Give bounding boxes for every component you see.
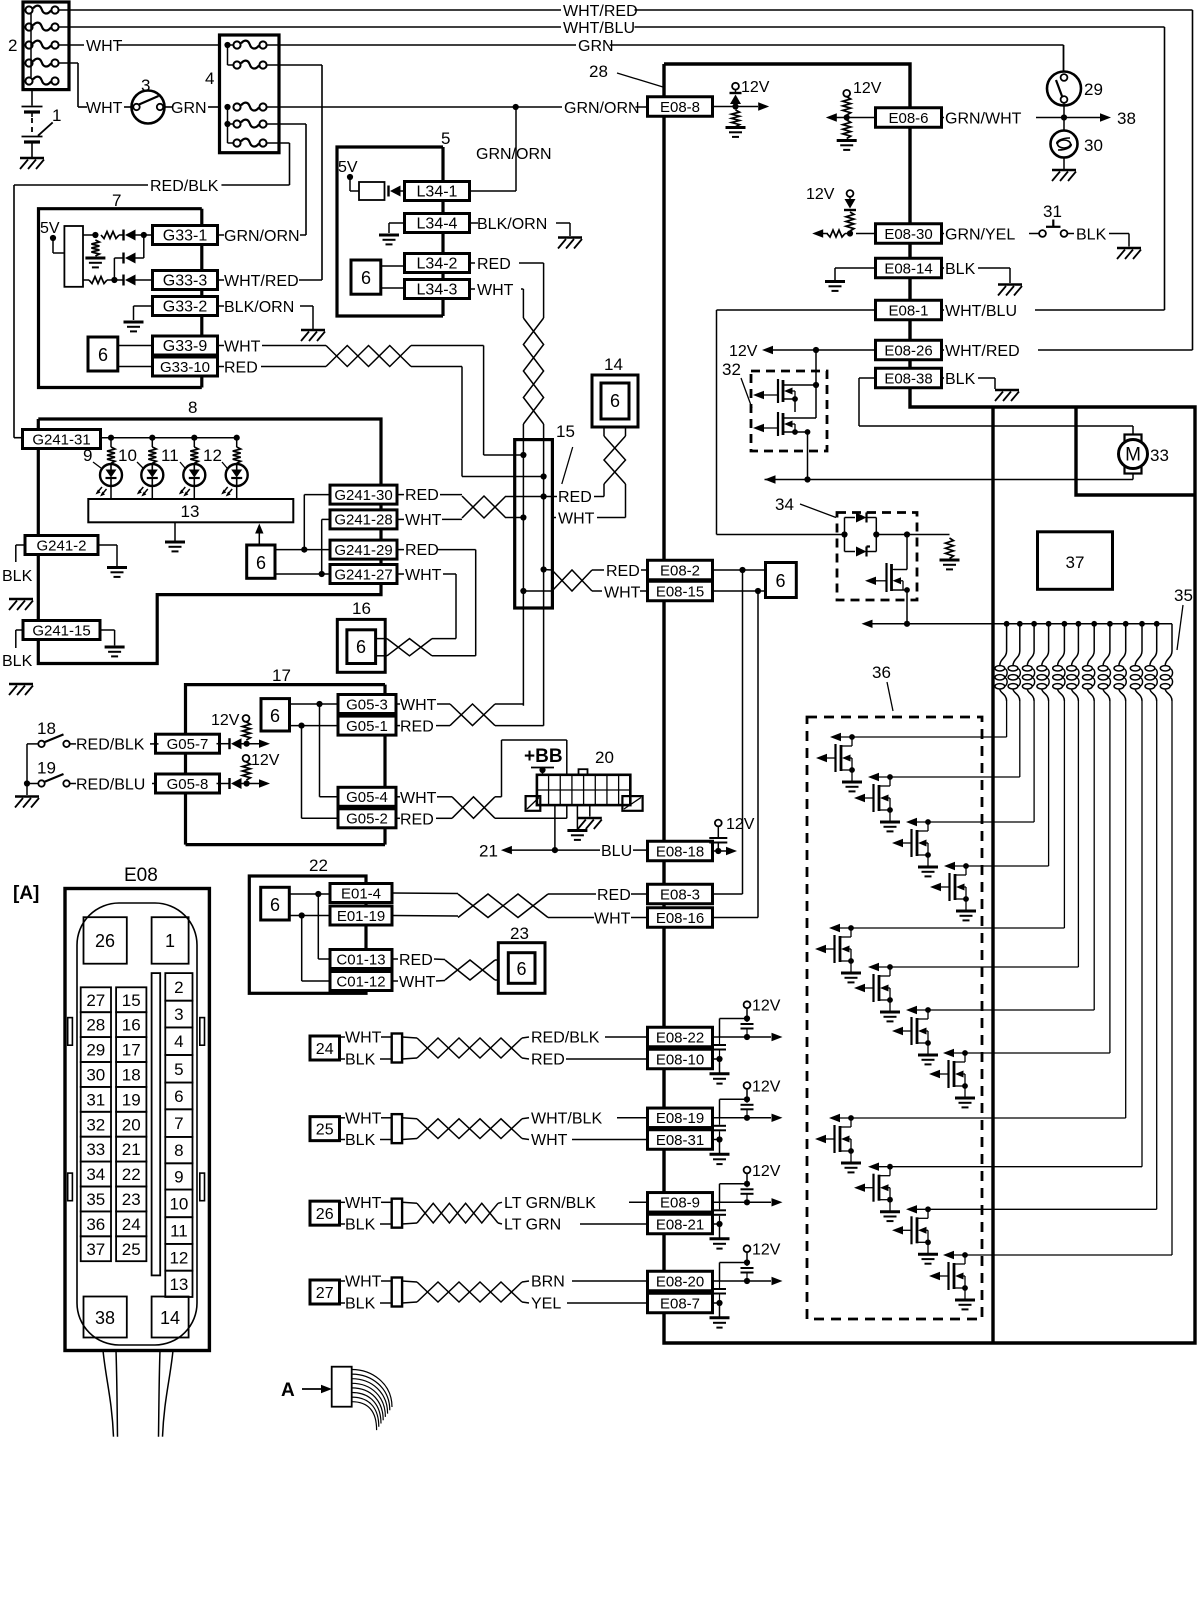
wire G241-2 to ground left	[16, 545, 25, 562]
twisted pair (G05-4/2)	[452, 797, 495, 819]
wire 6 to G05-3/G05-4	[290, 701, 338, 797]
driver MOSFET Q9 (36)	[815, 1114, 1126, 1173]
junction box 6 (box 7)	[88, 337, 118, 371]
svg-text:6: 6	[516, 959, 526, 979]
svg-text:RED: RED	[405, 487, 439, 504]
connector E08 face outline	[65, 889, 209, 1351]
wire RED/BLK from connector 4 to G241-31	[14, 143, 290, 438]
twisted pair (box 16)	[376, 639, 432, 656]
wire 6 to L34-2	[381, 265, 405, 267]
inductor coil 2 (35)	[1008, 624, 1020, 777]
svg-text:1: 1	[165, 931, 175, 951]
pin 3 (connector)	[165, 1001, 192, 1028]
pin 14 (connector)	[152, 1297, 189, 1338]
svg-text:E08-26: E08-26	[884, 342, 932, 359]
svg-text:RED/BLK: RED/BLK	[76, 737, 145, 754]
svg-text:8: 8	[174, 1141, 183, 1160]
connector pin E08-7	[648, 1293, 713, 1313]
svg-text:G33-10: G33-10	[160, 359, 210, 376]
connector pin E08-16	[648, 908, 713, 928]
svg-text:A: A	[281, 1380, 295, 1401]
pin 17 (connector)	[116, 1037, 146, 1062]
battery with switch 1	[22, 90, 53, 157]
harness wires (connector)	[103, 1350, 173, 1436]
svg-text:6: 6	[270, 895, 280, 915]
connector pin G05-8	[156, 774, 220, 793]
connector pin G05-2	[338, 809, 396, 828]
svg-text:WHT: WHT	[531, 1132, 568, 1149]
svg-text:9: 9	[83, 446, 92, 465]
junction box 6 (box 17)	[261, 699, 290, 731]
wire motor to H-bridge	[765, 475, 1134, 483]
svg-text:28: 28	[86, 1016, 105, 1035]
wire 6 to E01-19/C01-12	[289, 912, 330, 981]
pin 33 (connector)	[81, 1137, 111, 1162]
12V pull-up pair block 2	[710, 1082, 783, 1164]
bundle connector (A)	[332, 1367, 352, 1407]
inductor coil 9 (35)	[1114, 624, 1126, 1118]
svg-text:GRN/ORN: GRN/ORN	[224, 228, 300, 245]
wire RED/WHT to box 14	[552, 484, 625, 518]
pull-down resistor (box 7)	[85, 240, 105, 267]
ground (switches 18/19)	[15, 797, 39, 808]
shield bar (27)	[340, 1278, 403, 1307]
wire GRN/ORN branch to connector 4 row 4	[267, 124, 307, 235]
connector pin E08-2	[648, 560, 713, 580]
svg-text:BLK: BLK	[2, 653, 33, 670]
motor 33	[1119, 435, 1148, 480]
svg-text:12V: 12V	[752, 1078, 781, 1095]
svg-text:18: 18	[122, 1066, 141, 1085]
junction box 6 (box 5)	[351, 260, 381, 294]
pin 15 (connector)	[116, 987, 146, 1012]
pointer line (15)	[562, 447, 573, 484]
connector pin G05-7	[156, 734, 220, 753]
svg-text:G05-8: G05-8	[167, 776, 209, 793]
motor box 33	[1076, 407, 1195, 495]
svg-text:GRN/YEL: GRN/YEL	[945, 227, 1015, 244]
svg-text:12V: 12V	[211, 712, 240, 729]
svg-text:6: 6	[361, 268, 371, 288]
connector pin E08-1	[876, 300, 942, 320]
svg-text:G05-3: G05-3	[346, 696, 388, 713]
diode D1 (box 7)	[119, 230, 153, 241]
pin 1 (connector)	[152, 917, 189, 964]
svg-text:RED: RED	[400, 719, 434, 736]
switch 3	[124, 91, 172, 124]
resistor (LED 12)	[233, 438, 241, 464]
svg-text:RED: RED	[606, 563, 640, 580]
box 16 (shield connector)	[337, 619, 385, 672]
svg-text:12V: 12V	[726, 816, 755, 833]
5V supply (box 7)	[40, 220, 64, 253]
switch 31	[1039, 220, 1074, 237]
connector pin C01-13	[330, 950, 392, 969]
svg-text:+BB: +BB	[524, 746, 563, 767]
wire to switch 3	[59, 63, 87, 107]
ground wire (E08-14 internal)	[825, 268, 876, 291]
svg-text:E08-7: E08-7	[660, 1295, 700, 1312]
twisted pair (C01 to box 23)	[392, 959, 498, 981]
svg-text:BLK: BLK	[345, 1052, 376, 1069]
svg-text:E08-2: E08-2	[660, 562, 700, 579]
junction box 6 (box 22)	[261, 887, 290, 920]
svg-text:24: 24	[316, 1041, 334, 1058]
driver MOSFET Q10 (36)	[854, 1163, 1142, 1222]
svg-text:BLK: BLK	[345, 1132, 376, 1149]
connector pin E08-8	[648, 97, 713, 117]
driver MOSFET Q2 (36)	[854, 773, 1020, 832]
svg-text:12V: 12V	[806, 186, 835, 203]
svg-text:WHT: WHT	[345, 1030, 382, 1047]
12V pull-up pair block 3	[710, 1167, 783, 1249]
inductor coil 1 (35)	[995, 624, 1007, 737]
svg-text:G33-3: G33-3	[163, 272, 208, 289]
svg-text:G241-30: G241-30	[334, 487, 392, 504]
pin 2 (connector)	[165, 973, 192, 1001]
svg-text:12V: 12V	[853, 80, 882, 97]
svg-text:12V: 12V	[729, 343, 758, 360]
wire E08-2 to 6	[713, 567, 766, 573]
label WHT/RED	[561, 3, 634, 20]
wire G241-27 WHT to box 16	[397, 574, 456, 639]
wire GRN/ORN from L34-1	[470, 107, 517, 191]
svg-text:E08-21: E08-21	[656, 1216, 704, 1233]
svg-text:6: 6	[356, 637, 366, 657]
svg-text:35: 35	[86, 1190, 105, 1209]
wire G33-3 to WHT/RED	[218, 279, 323, 281]
inductor coil 10 (35)	[1130, 624, 1142, 1167]
wire GRN from connector 4 to switch 29	[267, 45, 1064, 73]
twisted pair (E01 to E08-3/16)	[392, 893, 648, 918]
svg-text:E08-6: E08-6	[888, 110, 928, 127]
pin 37 (connector)	[81, 1236, 111, 1261]
svg-text:WHT/BLU: WHT/BLU	[563, 20, 635, 37]
wire BLK to ground (31)	[1109, 234, 1129, 247]
wire WHT from fuse 2 to connector 4	[59, 44, 220, 46]
svg-text:30: 30	[86, 1066, 105, 1085]
svg-text:BLK: BLK	[345, 1217, 376, 1234]
twisted pair (box15 to E08-2/15)	[520, 566, 647, 594]
pin 12 (connector)	[165, 1244, 192, 1271]
ground (bar 13)	[165, 522, 185, 551]
wire E08-3 internal	[713, 570, 743, 894]
svg-text:34: 34	[86, 1165, 105, 1184]
12V pull-up (G05-8)	[242, 752, 279, 780]
twisted pair (box 14)	[604, 427, 626, 484]
svg-text:L34-4: L34-4	[417, 215, 458, 232]
wire WHT/RED top	[59, 9, 1193, 11]
svg-text:E08-38: E08-38	[884, 370, 932, 387]
svg-text:E08-20: E08-20	[656, 1273, 704, 1290]
box 23 (shield connector)	[498, 943, 545, 994]
label RED/BLK	[148, 178, 221, 195]
svg-text:5: 5	[174, 1060, 183, 1079]
svg-text:3: 3	[174, 1005, 183, 1024]
svg-text:21: 21	[122, 1140, 141, 1159]
svg-text:G33-1: G33-1	[163, 227, 208, 244]
wire/arrow (E08-18)	[713, 847, 738, 855]
label WHT	[84, 38, 118, 55]
resistor (LED 11)	[190, 438, 198, 464]
svg-text:WHT: WHT	[594, 911, 631, 928]
resistor (box 5)	[359, 182, 385, 200]
+BB terminal	[531, 767, 554, 775]
connector pin E08-6	[876, 108, 942, 128]
svg-text:5V: 5V	[338, 159, 358, 176]
pin 31 (connector)	[81, 1087, 111, 1112]
resistor (LED 10)	[148, 438, 156, 464]
connector pin G33-10	[153, 357, 218, 376]
pin 16 (connector)	[116, 1012, 146, 1037]
svg-text:27: 27	[316, 1285, 334, 1302]
svg-text:E08-3: E08-3	[660, 886, 700, 903]
svg-text:WHT: WHT	[345, 1274, 382, 1291]
svg-text:6: 6	[174, 1087, 183, 1106]
svg-text:33: 33	[1150, 446, 1169, 465]
twisted pair (G241-30/28)	[462, 496, 506, 518]
connector pin G33-2	[153, 297, 218, 316]
LED 11	[179, 463, 206, 499]
wire GRN to connector 4	[208, 106, 220, 108]
svg-text:34: 34	[775, 495, 794, 514]
svg-text:12: 12	[169, 1248, 188, 1267]
svg-text:E01-4: E01-4	[341, 885, 381, 902]
inductor coil 11 (35)	[1145, 624, 1157, 1210]
twisted pair (27)	[402, 1281, 529, 1303]
svg-text:WHT: WHT	[558, 511, 595, 528]
svg-text:E08-30: E08-30	[884, 226, 932, 243]
box 32 (dashed)	[751, 371, 827, 451]
svg-text:5V: 5V	[40, 220, 60, 237]
pin 38 (connector)	[84, 1297, 127, 1338]
svg-text:WHT: WHT	[477, 282, 514, 299]
svg-text:E08-18: E08-18	[656, 843, 704, 860]
inductor coil 6 (35)	[1067, 624, 1079, 967]
wire WHT/RED branch from connector 4 to G33-3	[267, 65, 323, 280]
wire 6 to E01-4/C01-13	[289, 891, 330, 959]
driver MOSFET Q3 (36)	[892, 818, 1034, 877]
svg-text:RED: RED	[597, 887, 631, 904]
pin 24 (connector)	[116, 1211, 146, 1236]
diode (G05-8)	[217, 778, 271, 789]
svg-text:29: 29	[1084, 80, 1103, 99]
pin 19 (connector)	[116, 1087, 146, 1112]
connector pin G33-3	[153, 271, 218, 290]
sensor box 25	[310, 1117, 340, 1141]
diode bridge (box 34)	[841, 513, 910, 557]
connector pin E08-21	[648, 1214, 713, 1234]
pin 27 (connector)	[81, 987, 111, 1012]
connector pin L34-2	[405, 254, 470, 273]
wire 6 to G05-1/G05-2	[290, 723, 338, 819]
driver MOSFET Q8 (36)	[929, 1049, 1110, 1108]
svg-text:C01-12: C01-12	[336, 973, 385, 990]
MOSFET (box 34)	[865, 535, 910, 624]
svg-text:11: 11	[161, 446, 179, 465]
wire 6 to L34-3	[381, 287, 405, 289]
svg-text:4: 4	[174, 1032, 183, 1051]
svg-text:G241-27: G241-27	[334, 566, 392, 583]
svg-text:23: 23	[510, 924, 529, 943]
driver MOSFET Q6 (36)	[854, 963, 1078, 1022]
svg-text:WHT/BLU: WHT/BLU	[945, 303, 1017, 320]
connector pin E01-19	[330, 906, 392, 925]
svg-text:12V: 12V	[752, 998, 781, 1015]
svg-text:16: 16	[122, 1016, 141, 1035]
driver MOSFET Q12 (36)	[929, 1251, 1172, 1310]
pin 28 (connector)	[81, 1012, 111, 1037]
twisted pair (25)	[402, 1118, 529, 1140]
svg-text:BLK: BLK	[1076, 227, 1107, 244]
box 36 (dashed)	[807, 717, 982, 1319]
svg-text:WHT: WHT	[86, 100, 123, 117]
svg-text:36: 36	[872, 663, 891, 682]
wire BLU / node 21	[501, 805, 648, 854]
wire WHT down from L34-3	[470, 289, 524, 318]
wire RED (G05-2) to connector 20	[495, 805, 567, 818]
12V pull-up (G05-7)	[211, 712, 250, 740]
svg-text:10: 10	[169, 1194, 188, 1213]
side tabs (connector)	[68, 1018, 205, 1201]
inductor coil 5 (35)	[1053, 624, 1065, 928]
pointer line (36)	[887, 682, 893, 711]
pin 7 (connector)	[165, 1109, 192, 1137]
svg-text:RED: RED	[531, 1052, 565, 1069]
wire G241-28 WHT to box 15	[397, 518, 462, 520]
svg-text:G33-2: G33-2	[163, 298, 208, 315]
box 5 outline	[337, 147, 443, 316]
svg-text:22: 22	[309, 856, 328, 875]
box 14 (shield connector)	[592, 375, 638, 427]
svg-text:RED/BLK: RED/BLK	[150, 178, 219, 195]
svg-text:28: 28	[589, 62, 608, 81]
svg-text:G05-4: G05-4	[346, 789, 388, 806]
svg-text:17: 17	[272, 666, 291, 685]
connector pin G33-9	[153, 336, 218, 355]
wire E08-16 internal	[713, 591, 759, 918]
svg-text:7: 7	[174, 1114, 183, 1133]
wire E08-26 internal 12V	[762, 346, 876, 354]
svg-text:12: 12	[203, 446, 222, 465]
LED 9	[96, 463, 123, 499]
connector pin E08-38	[876, 368, 942, 388]
connector E08 inner outline	[77, 903, 197, 1345]
svg-text:36: 36	[86, 1215, 105, 1234]
box 8 outline	[38, 419, 381, 664]
svg-text:RED: RED	[400, 811, 434, 828]
ground (battery)	[20, 158, 44, 169]
svg-text:C01-13: C01-13	[336, 951, 385, 968]
divider bar (connector)	[152, 973, 161, 1275]
svg-text:LT GRN: LT GRN	[504, 1217, 561, 1234]
LED supply rail	[101, 435, 240, 441]
ground (lamp 30)	[1052, 170, 1076, 181]
inductor coil 4 (35)	[1037, 624, 1049, 866]
svg-text:13: 13	[181, 502, 200, 521]
svg-text:12V: 12V	[741, 79, 770, 96]
svg-text:G05-2: G05-2	[346, 811, 388, 828]
resistor to ground (box 34 out)	[907, 535, 960, 570]
shield bar (24)	[340, 1034, 403, 1063]
svg-text:WHT: WHT	[400, 790, 437, 807]
svg-text:WHT/BLK: WHT/BLK	[531, 1110, 602, 1127]
svg-text:E08-8: E08-8	[660, 99, 700, 116]
svg-text:2: 2	[8, 36, 17, 55]
svg-text:GRN: GRN	[171, 100, 207, 117]
svg-text:38: 38	[95, 1308, 115, 1328]
label GRN	[576, 38, 610, 55]
svg-text:33: 33	[86, 1140, 105, 1159]
svg-text:E08-19: E08-19	[656, 1110, 704, 1127]
12V pull-up (E08-8)	[713, 83, 770, 137]
connector pin E08-10	[648, 1049, 713, 1069]
arrow (A)	[302, 1385, 332, 1393]
pointer line (32)	[741, 378, 752, 408]
connector pin E08-19	[648, 1108, 713, 1128]
wire bundle (A)	[352, 1370, 392, 1431]
svg-text:WHT: WHT	[86, 38, 123, 55]
svg-text:37: 37	[1066, 553, 1085, 572]
resistor (LED 9)	[107, 438, 115, 464]
wire G241-30 RED to box 15	[397, 494, 462, 496]
pointer line (34)	[800, 504, 836, 518]
pin 26 (connector)	[84, 917, 127, 964]
connector pin G33-1	[153, 226, 218, 245]
12V pull-up pair block 1	[710, 1001, 783, 1083]
svg-text:BRN: BRN	[531, 1274, 565, 1291]
pin 30 (connector)	[81, 1062, 111, 1087]
box 37	[1038, 532, 1113, 590]
svg-text:20: 20	[122, 1115, 141, 1134]
junction box 6 (E08-2/15)	[766, 563, 797, 598]
wire G241-29 RED to box 16	[397, 550, 476, 656]
svg-text:35: 35	[1174, 586, 1193, 605]
pin 6 (connector)	[165, 1083, 192, 1110]
pin 11 (connector)	[165, 1217, 192, 1244]
12V pull-up (E08-6)	[826, 90, 876, 150]
svg-text:BLK/ORN: BLK/ORN	[477, 216, 547, 233]
svg-text:32: 32	[722, 360, 741, 379]
svg-text:6: 6	[270, 706, 280, 726]
svg-text:7: 7	[112, 191, 121, 210]
svg-text:RED: RED	[405, 542, 439, 559]
lamp 30	[1051, 118, 1078, 170]
IC block (box 7)	[64, 226, 83, 287]
wire 6 to G241-30/29	[275, 495, 330, 553]
wires G05-4/2 to twisted pair	[396, 797, 452, 819]
box 22 outline	[249, 876, 366, 993]
driver MOSFET Q4 (36)	[930, 862, 1049, 921]
driver MOSFET Q5 (36)	[815, 924, 1064, 983]
ground wire (L34-4 left)	[379, 223, 405, 244]
ground (G241-2 left)	[9, 599, 33, 610]
pointer line (35)	[1177, 605, 1183, 650]
wire BLK/ORN to ground	[470, 223, 571, 236]
svg-text:27: 27	[86, 991, 105, 1010]
svg-text:31: 31	[86, 1090, 105, 1109]
ground (G241-15 left)	[9, 684, 33, 695]
svg-text:BLK: BLK	[2, 568, 33, 585]
sensor box 27	[310, 1280, 340, 1304]
svg-text:26: 26	[316, 1206, 334, 1223]
svg-text:19: 19	[37, 759, 56, 778]
connector pin L34-3	[405, 280, 470, 299]
coil common feed line	[862, 620, 1173, 628]
svg-text:WHT: WHT	[604, 585, 641, 602]
svg-text:14: 14	[604, 355, 623, 374]
svg-text:37: 37	[86, 1240, 105, 1259]
